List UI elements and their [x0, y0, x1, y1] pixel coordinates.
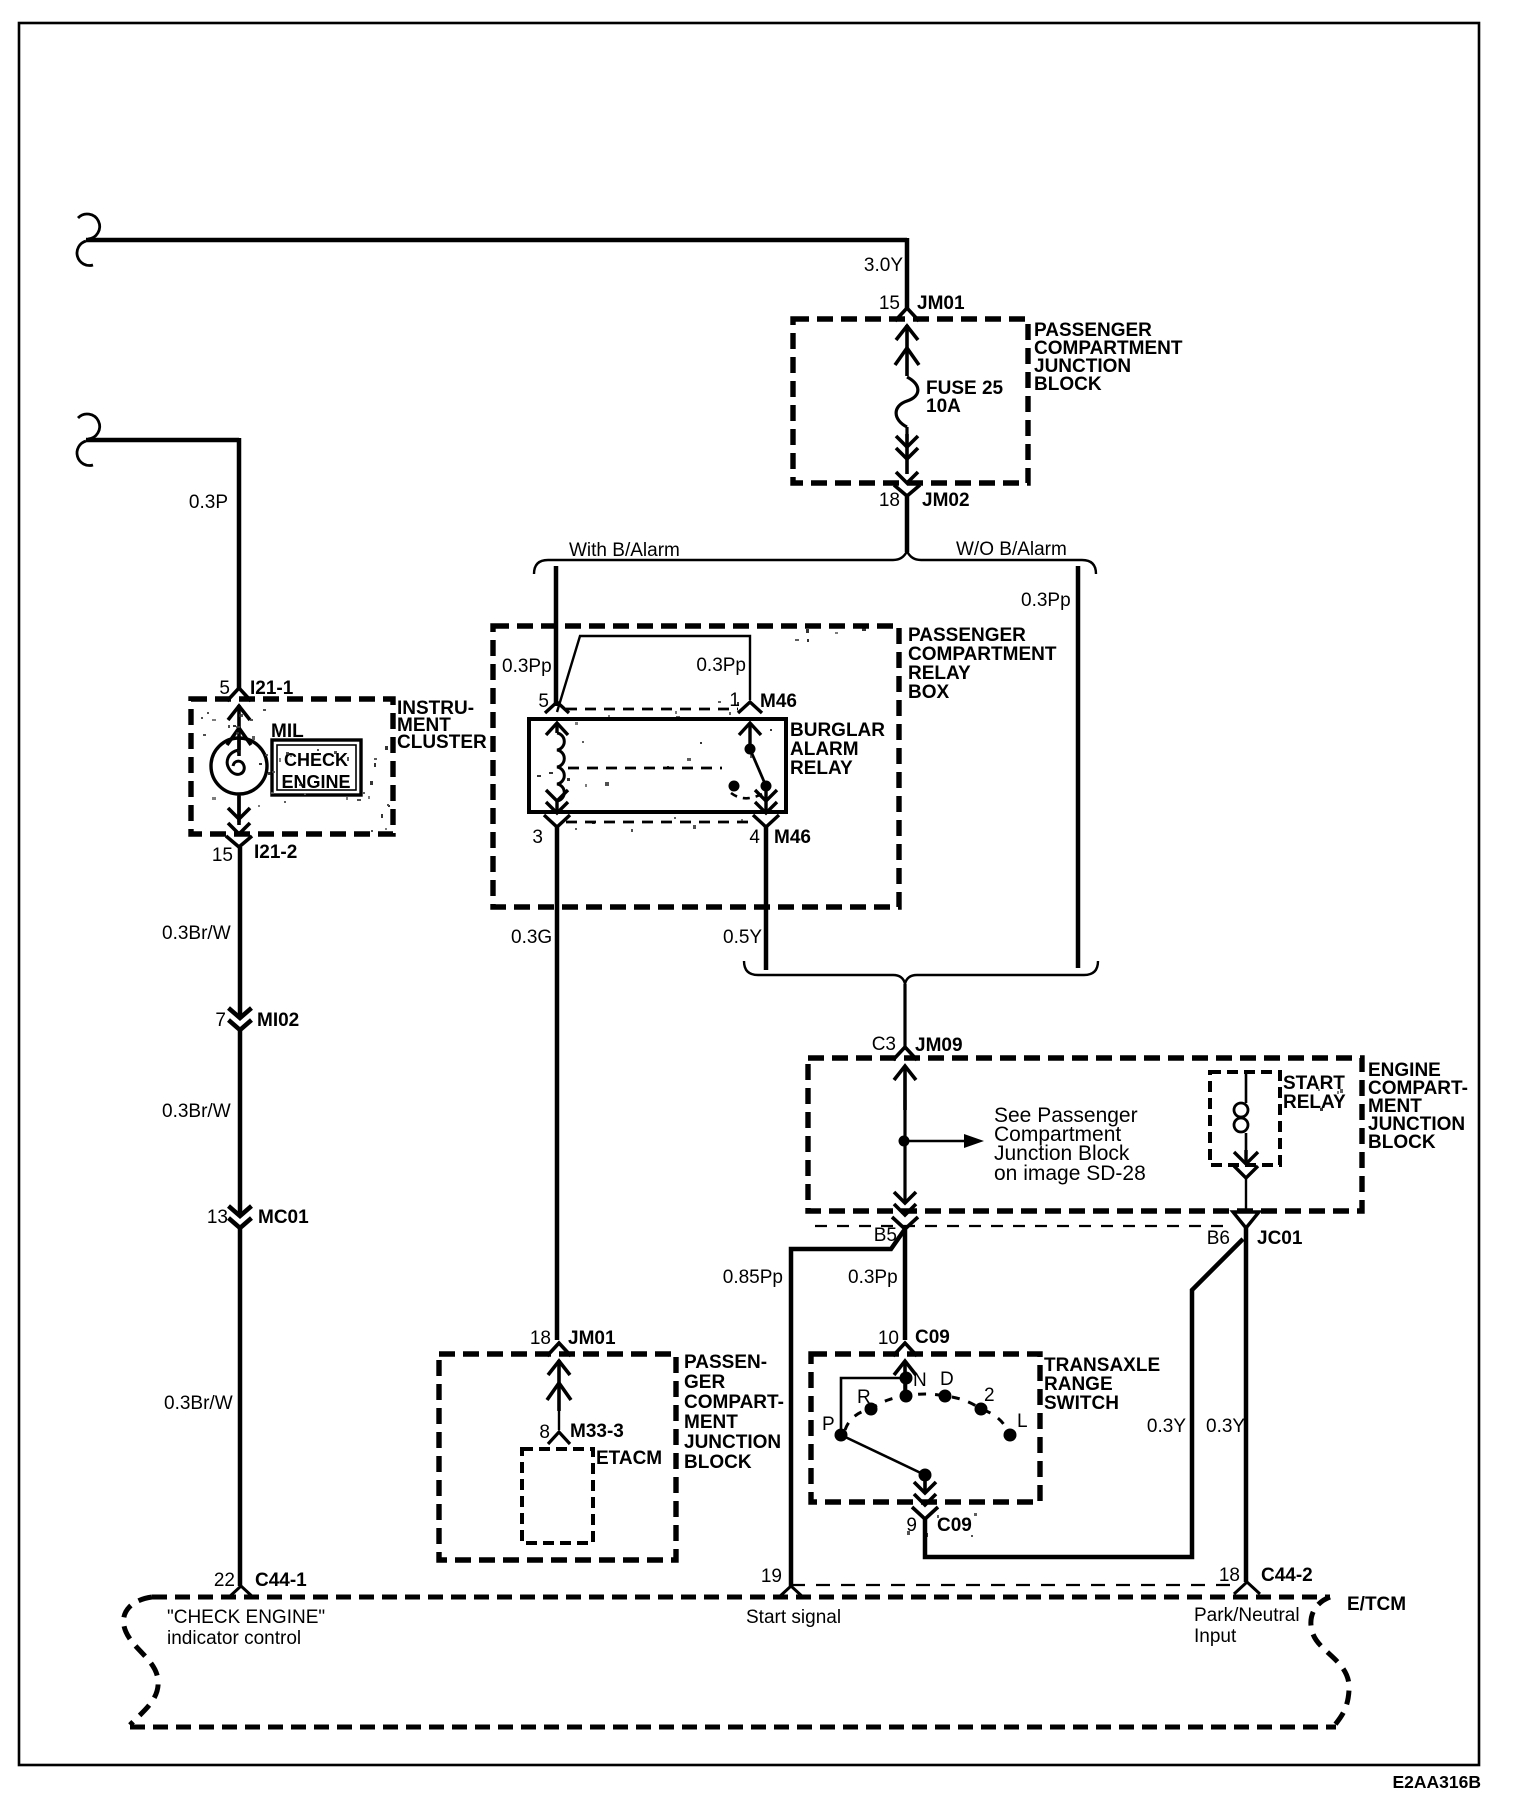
E/TCM box top dashed edge — [152, 1595, 1330, 1600]
svg-text:0.3Y: 0.3Y — [1147, 1416, 1186, 1437]
relay contact NC node — [729, 781, 740, 792]
svg-text:C09: C09 — [915, 1327, 950, 1348]
connector JM01 (pin 15) — [895, 308, 919, 376]
svg-text:C44-1: C44-1 — [255, 1570, 307, 1591]
svg-text:ETACM: ETACM — [596, 1448, 662, 1469]
svg-text:JM02: JM02 — [922, 490, 970, 511]
wire: 0.3P horizontal from curl — [86, 438, 239, 443]
relay pin 1 connector — [738, 702, 762, 744]
svg-text:22: 22 — [214, 1570, 235, 1591]
svg-text:0.3Br/W: 0.3Br/W — [162, 923, 231, 944]
wire: 0.85Pp branch to pin 19 — [791, 1229, 905, 1586]
connector JM09 (pin C3) entry — [893, 1047, 917, 1110]
junction node — [899, 1136, 910, 1147]
relay contact node pin4 side — [761, 781, 772, 792]
wire: 0.3Br/W segment 1 — [238, 847, 243, 1016]
same-connector dashed line B5-B6 — [815, 1225, 1230, 1227]
svg-text:2: 2 — [984, 1385, 995, 1406]
svg-text:JM01: JM01 — [917, 293, 965, 314]
svg-text:indicator control: indicator control — [167, 1628, 301, 1649]
wire: 0.3Br/W segment 2 — [238, 1029, 243, 1214]
wire: 0.3P vertical down to I21-1 — [237, 438, 242, 689]
svg-text:3.0Y: 3.0Y — [864, 255, 903, 276]
svg-text:4: 4 — [749, 827, 760, 848]
svg-text:BLOCK: BLOCK — [1034, 374, 1102, 395]
svg-text:15: 15 — [212, 845, 233, 866]
wire: JM01-18 to M33-3 — [558, 1411, 560, 1430]
connector I21-1 entry — [227, 688, 251, 756]
wire: w/o-alarm branch 0.3Pp right vertical — [1076, 566, 1081, 968]
wire: battery feed horizontal 3.0Y — [86, 238, 907, 243]
ETACM dashed box — [522, 1449, 593, 1543]
wire: JC01 down to C44-2 — [1244, 1228, 1249, 1582]
connector M33-3 chevron — [548, 1432, 570, 1444]
svg-text:MENT: MENT — [684, 1412, 738, 1433]
svg-text:19: 19 — [761, 1566, 782, 1587]
passenger compartment junction block (top) dashed box — [793, 319, 1028, 483]
svg-text:ALARM: ALARM — [790, 739, 859, 760]
wire: B5 down to C09 pin 10 — [903, 1229, 908, 1340]
wire: 0.5Y down from pin 4 — [764, 827, 769, 970]
svg-text:C44-2: C44-2 — [1261, 1565, 1313, 1586]
svg-text:10A: 10A — [926, 396, 961, 417]
scan noise speckles — [201, 628, 1343, 1537]
svg-text:MI02: MI02 — [257, 1010, 299, 1031]
svg-text:CHECK: CHECK — [284, 750, 348, 770]
svg-text:0.3Pp: 0.3Pp — [502, 656, 552, 677]
svg-text:0.3Br/W: 0.3Br/W — [162, 1101, 231, 1122]
switch dashed arc — [845, 1394, 1007, 1430]
svg-text:0.3Pp: 0.3Pp — [696, 655, 746, 676]
svg-text:GER: GER — [684, 1372, 725, 1393]
svg-text:W/O B/Alarm: W/O B/Alarm — [956, 539, 1067, 560]
M46 connector dashed line (pins 5-1) — [566, 708, 738, 711]
wire into lamp — [237, 738, 240, 822]
relay pin 5 connector — [545, 702, 569, 735]
E/TCM box bottom dashed edge — [130, 1725, 1336, 1730]
connector MI02 inline — [229, 1008, 252, 1030]
svg-text:0.3Pp: 0.3Pp — [848, 1267, 898, 1288]
svg-text:CLUSTER: CLUSTER — [397, 732, 487, 753]
svg-text:18: 18 — [530, 1328, 551, 1349]
svg-text:7: 7 — [215, 1010, 226, 1031]
relay internal dashed actuation line — [568, 767, 722, 770]
svg-text:JM01: JM01 — [568, 1328, 616, 1349]
M46 connector dashed line (pins 3-4) — [566, 821, 748, 824]
wire: fuse to JM02 — [905, 427, 908, 440]
CHECK ENGINE indicator box — [272, 740, 361, 795]
svg-text:START: START — [1283, 1073, 1345, 1094]
wire: pin 9 loop to JC01 — [925, 1239, 1243, 1557]
connector C09 pin 10 entry — [893, 1343, 917, 1392]
svg-text:E/TCM: E/TCM — [1347, 1594, 1406, 1615]
svg-text:P: P — [822, 1414, 835, 1435]
split brace With/WO B Alarm — [534, 551, 1096, 574]
svg-text:JUNCTION: JUNCTION — [684, 1432, 781, 1453]
svg-text:M46: M46 — [774, 827, 811, 848]
svg-text:C09: C09 — [937, 1515, 972, 1536]
wire: 0.3Br/W segment 3 — [238, 1227, 243, 1586]
passenger compartment relay box dashed — [493, 626, 899, 907]
wire: JM02 down to split — [905, 495, 910, 552]
engine compartment junction block dashed box — [808, 1058, 1362, 1211]
E/TCM same-connector thin dashed line pins 19-18 — [791, 1584, 1237, 1586]
svg-text:"CHECK ENGINE": "CHECK ENGINE" — [167, 1607, 325, 1628]
svg-text:0.3Y: 0.3Y — [1206, 1416, 1245, 1437]
fuse FUSE 25 10A — [896, 377, 918, 427]
svg-text:BOX: BOX — [908, 682, 950, 703]
svg-text:on image SD-28: on image SD-28 — [994, 1162, 1146, 1185]
svg-text:E2AA316B: E2AA316B — [1392, 1772, 1481, 1792]
start relay dashed box — [1210, 1072, 1280, 1165]
wire: vertical drop to JM01 — [905, 238, 910, 309]
passenger compartment junction block (bottom) dashed box — [439, 1354, 676, 1560]
relay pin 3 connector exit — [544, 790, 570, 827]
svg-text:D: D — [940, 1369, 954, 1390]
connector I21-2 exit — [226, 796, 252, 847]
svg-text:0.5Y: 0.5Y — [723, 927, 762, 948]
connector pin 22 fan — [228, 1586, 254, 1598]
wire-end curl left of battery feed — [77, 214, 100, 265]
svg-text:With B/Alarm: With B/Alarm — [569, 540, 680, 561]
svg-text:18: 18 — [1219, 1565, 1240, 1586]
svg-text:0.3Br/W: 0.3Br/W — [164, 1393, 233, 1414]
wire: 0.3G down from pin 3 — [555, 827, 560, 1340]
connector pin 19 fan — [778, 1586, 804, 1598]
svg-text:PASSEN-: PASSEN- — [684, 1352, 767, 1373]
svg-text:B6: B6 — [1207, 1228, 1230, 1249]
svg-text:0.3Pp: 0.3Pp — [1021, 590, 1071, 611]
connector C09 pin 9 exit — [912, 1478, 938, 1519]
svg-text:0.3P: 0.3P — [189, 492, 228, 513]
svg-text:I21-1: I21-1 — [250, 678, 294, 699]
svg-text:L: L — [1017, 1411, 1028, 1432]
svg-text:9: 9 — [906, 1515, 917, 1536]
svg-text:Start signal: Start signal — [746, 1607, 841, 1628]
svg-text:15: 15 — [879, 293, 900, 314]
svg-text:R: R — [857, 1387, 871, 1408]
wire: trapezoid link pin5 to pin1 — [557, 636, 750, 712]
wire inside JM09 block — [903, 1100, 906, 1200]
svg-text:C3: C3 — [872, 1034, 896, 1055]
merge brace below 0.5Y / 0.3Pp — [744, 961, 1098, 984]
connector pin 18 fan C44-2 — [1234, 1582, 1260, 1594]
relay contact arm — [750, 749, 766, 786]
relay contact throw dashed arc — [731, 793, 762, 798]
svg-text:0.3G: 0.3G — [511, 927, 552, 948]
svg-text:JM09: JM09 — [915, 1035, 963, 1056]
wire: merge to C3 — [903, 984, 906, 1050]
connector JM02 (pin 18) exit — [894, 434, 920, 496]
svg-text:RELAY: RELAY — [1283, 1092, 1346, 1113]
svg-text:M33-3: M33-3 — [570, 1421, 624, 1442]
start relay exit arrow — [1234, 1150, 1258, 1178]
switch N feed line — [841, 1378, 906, 1435]
svg-text:ENGINE: ENGINE — [281, 772, 350, 792]
svg-text:RELAY: RELAY — [908, 663, 971, 684]
svg-text:10: 10 — [878, 1328, 899, 1349]
svg-text:BLOCK: BLOCK — [1368, 1132, 1436, 1153]
MIL lamp filament curl — [227, 750, 244, 774]
relay contact: node on pin 1 — [745, 744, 756, 755]
svg-text:5: 5 — [219, 678, 230, 699]
wire-end curl left of 0.3P feed — [77, 414, 100, 465]
relay coil — [557, 733, 564, 801]
svg-text:Input: Input — [1194, 1626, 1237, 1647]
svg-text:0.85Pp: 0.85Pp — [723, 1267, 783, 1288]
burglar alarm relay solid box — [529, 719, 786, 812]
switch contact dots — [900, 1372, 913, 1385]
svg-text:18: 18 — [879, 490, 900, 511]
svg-text:Park/Neutral: Park/Neutral — [1194, 1605, 1300, 1626]
svg-text:COMPARTMENT: COMPARTMENT — [908, 644, 1057, 665]
svg-text:M46: M46 — [760, 691, 797, 712]
connector JM01 pin 18 entry — [547, 1343, 571, 1411]
svg-text:RANGE: RANGE — [1044, 1374, 1113, 1395]
connector MC01 inline — [229, 1206, 252, 1228]
start relay coil — [1245, 1072, 1248, 1103]
connector JC01 triangle (pin B6) — [1233, 1212, 1259, 1228]
svg-text:BURGLAR: BURGLAR — [790, 720, 885, 741]
E/TCM box right wavy edge — [1311, 1597, 1349, 1726]
switch wiper arm — [841, 1435, 925, 1475]
svg-text:1: 1 — [729, 690, 740, 711]
wire: with-alarm branch down to relay pin 5 — [554, 566, 559, 706]
svg-text:N: N — [913, 1370, 927, 1391]
svg-text:8: 8 — [539, 1422, 550, 1443]
E/TCM box left wavy edge — [124, 1597, 159, 1725]
svg-text:MC01: MC01 — [258, 1207, 309, 1228]
svg-text:JC01: JC01 — [1257, 1228, 1303, 1249]
svg-text:RELAY: RELAY — [790, 758, 853, 779]
svg-text:COMPART-: COMPART- — [684, 1392, 784, 1413]
svg-text:SWITCH: SWITCH — [1044, 1393, 1119, 1414]
see-passenger reference arrow — [904, 1140, 964, 1142]
wire: start relay to JC01 — [1245, 1178, 1247, 1210]
svg-text:3: 3 — [532, 827, 543, 848]
svg-text:TRANSAXLE: TRANSAXLE — [1044, 1355, 1160, 1376]
svg-text:13: 13 — [207, 1207, 228, 1228]
transaxle range switch dashed box — [811, 1354, 1040, 1502]
svg-text:PASSENGER: PASSENGER — [908, 625, 1026, 646]
instrument cluster dashed box — [191, 699, 393, 834]
relay pin 4 connector exit — [753, 789, 779, 827]
connector B5 exit — [892, 1192, 918, 1229]
svg-text:BLOCK: BLOCK — [684, 1452, 752, 1473]
svg-text:I21-2: I21-2 — [254, 842, 297, 863]
MIL lamp circle — [211, 738, 267, 794]
